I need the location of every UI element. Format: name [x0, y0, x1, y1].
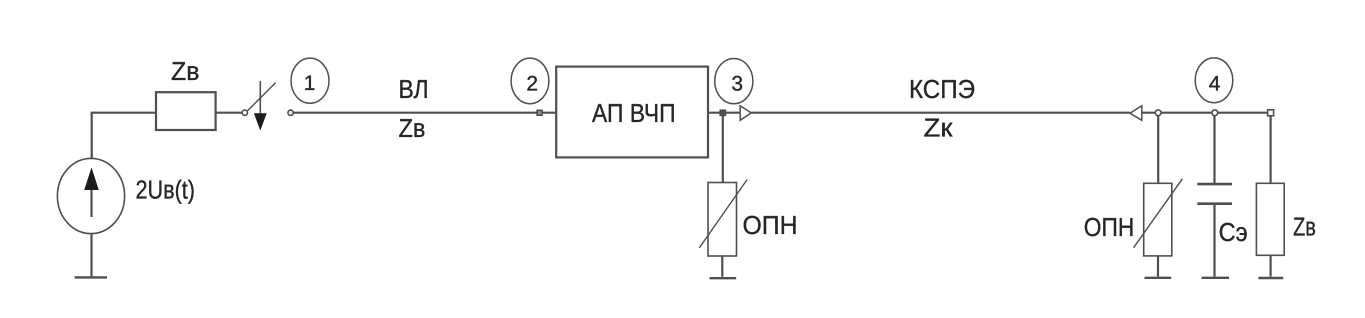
wire ОПН to ground — [721, 256, 723, 277]
wire bus down to ОПН right — [1157, 115, 1159, 183]
ground (Сэ) — [1202, 277, 1230, 279]
switch SW1 closing arrow — [254, 81, 267, 131]
wire node3 down to ОПН — [722, 116, 724, 183]
node 2 — [511, 58, 549, 104]
surge arrester F1 ОПН — [699, 180, 747, 256]
svg-text:Zв: Zв — [399, 113, 426, 143]
svg-text:3: 3 — [731, 72, 743, 95]
svg-text:1: 1 — [304, 72, 316, 95]
node 4 — [1195, 58, 1233, 103]
svg-text:4: 4 — [1209, 72, 1221, 95]
resistor Zв (source impedance) — [156, 92, 216, 130]
switch SW1 terminal right — [288, 110, 293, 115]
junction Zв branch (end) — [1268, 110, 1274, 116]
wire Zв to ground — [1269, 255, 1271, 276]
wire source bottom — [90, 234, 92, 277]
switch SW1 terminal left — [242, 110, 247, 115]
svg-text:Zв: Zв — [171, 56, 200, 86]
wire КСПЭ — [751, 112, 1130, 114]
node 1 — [291, 58, 329, 103]
switch SW1 blade — [248, 83, 276, 111]
surge arrester F2 ОПН — [1134, 179, 1183, 256]
capacitor Сэ — [1197, 184, 1232, 204]
cable termination marker right-pointing — [740, 106, 751, 121]
wire bus down to capacitor — [1213, 115, 1215, 183]
cable termination marker left-pointing — [1130, 106, 1142, 121]
svg-text:ВЛ: ВЛ — [399, 74, 429, 104]
node 3 — [715, 59, 753, 104]
wire ВЛ (node1 to block) — [293, 112, 556, 114]
wire bus down to Zв load — [1269, 115, 1271, 183]
svg-text:Сэ: Сэ — [1219, 217, 1248, 247]
svg-text:ОПН: ОПН — [1084, 212, 1135, 242]
ground (F2) — [1145, 277, 1172, 279]
svg-text:Zв: Zв — [1293, 212, 1316, 242]
svg-text:2Uв(t): 2Uв(t) — [136, 175, 196, 205]
wire block output — [708, 112, 740, 114]
wire F2 to ground — [1157, 256, 1159, 277]
voltage source E1 — [57, 158, 124, 233]
block U1 АП ВЧП — [556, 67, 708, 158]
wire capacitor to ground — [1213, 205, 1215, 277]
junction at node 3 — [720, 110, 725, 115]
junction Сэ branch — [1212, 110, 1218, 116]
svg-text:2: 2 — [526, 72, 538, 95]
junction ОПН branch — [1155, 110, 1161, 116]
resistor Zв (load) — [1256, 183, 1284, 255]
junction at block input — [537, 110, 542, 115]
svg-text:КСПЭ: КСПЭ — [909, 74, 975, 104]
ground (F1) — [710, 277, 737, 279]
wire resistor to switch — [216, 112, 243, 114]
svg-text:АП ВЧП: АП ВЧП — [592, 98, 676, 128]
ground (Zв) — [1258, 277, 1283, 279]
ground (source) — [75, 276, 107, 278]
wire right bus — [1142, 112, 1271, 114]
svg-text:ОПН: ОПН — [743, 210, 798, 240]
wire source to resistor — [92, 113, 156, 159]
svg-text:Zк: Zк — [924, 113, 954, 143]
